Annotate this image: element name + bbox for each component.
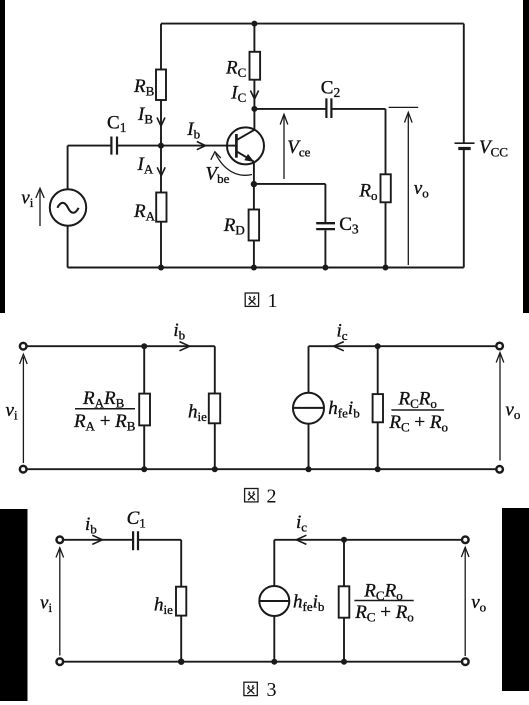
svg-text:1: 1 — [268, 290, 278, 312]
svg-text:ib: ib — [85, 514, 97, 537]
svg-text:IC: IC — [230, 83, 246, 106]
svg-text:RC + Ro: RC + Ro — [388, 412, 448, 435]
svg-text:ic: ic — [296, 512, 307, 535]
svg-text:RC: RC — [225, 58, 246, 81]
svg-text:RC + Ro: RC + Ro — [354, 602, 414, 625]
svg-text:ib: ib — [173, 320, 185, 343]
svg-text:ic: ic — [337, 320, 348, 343]
svg-text:vo: vo — [505, 399, 520, 422]
svg-text:C1: C1 — [107, 113, 126, 136]
svg-text:RA + RB: RA + RB — [73, 411, 136, 434]
svg-text:IA: IA — [137, 154, 154, 177]
svg-text:RARB: RARB — [82, 388, 125, 411]
svg-text:vo: vo — [414, 178, 429, 201]
svg-text:RCRo: RCRo — [363, 580, 402, 603]
svg-text:vo: vo — [471, 592, 486, 615]
svg-text:VCC: VCC — [479, 137, 508, 160]
svg-text:Ro: Ro — [358, 181, 377, 204]
svg-text:RCRo: RCRo — [398, 388, 437, 411]
svg-text:vi: vi — [21, 188, 33, 211]
svg-text:vi: vi — [6, 400, 18, 423]
svg-text:Ib: Ib — [186, 119, 200, 142]
svg-text:3: 3 — [267, 679, 277, 701]
svg-text:IB: IB — [137, 104, 153, 127]
svg-text:RB: RB — [133, 76, 155, 99]
svg-text:hfeib: hfeib — [328, 398, 359, 421]
svg-text:2: 2 — [267, 486, 277, 508]
svg-text:RA: RA — [133, 201, 156, 224]
svg-text:hie: hie — [154, 594, 173, 617]
svg-text:hfeib: hfeib — [293, 592, 324, 615]
svg-text:hie: hie — [188, 402, 207, 425]
svg-text:Vbe: Vbe — [206, 163, 230, 186]
svg-text:C2: C2 — [321, 78, 340, 101]
svg-text:RD: RD — [223, 215, 245, 238]
svg-text:C3: C3 — [339, 214, 359, 237]
svg-text:C1: C1 — [127, 508, 146, 531]
svg-text:vi: vi — [40, 592, 52, 615]
svg-text:Vce: Vce — [287, 137, 310, 160]
